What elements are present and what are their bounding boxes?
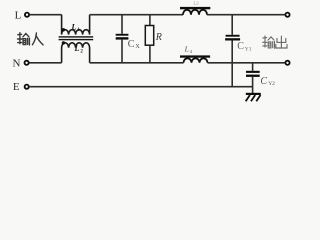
polarity dot L1	[62, 28, 65, 31]
wire N line right	[208, 62, 285, 64]
capacitor CY1	[226, 35, 240, 37]
capacitor CX	[116, 34, 129, 36]
svg-text:L3: L3	[192, 2, 199, 7]
inductor L2 (common-mode choke bottom winding)	[62, 43, 90, 63]
wire capacitor CY1 top lead	[231, 15, 233, 35]
svg-text:N: N	[13, 57, 21, 69]
terminal L	[25, 13, 29, 17]
wire capacitor CY2 top lead	[252, 63, 254, 70]
svg-text:C: C	[128, 39, 135, 50]
terminal output N	[285, 61, 289, 65]
svg-text:Y2: Y2	[268, 81, 275, 87]
choke core lines	[59, 36, 94, 37]
terminal output L	[285, 13, 289, 17]
wire L line middle	[90, 14, 183, 16]
resistor R	[145, 26, 153, 46]
wire capacitor CY2 bottom lead	[252, 77, 254, 94]
svg-text:Y1: Y1	[245, 47, 252, 53]
inductor L4 core bar	[180, 55, 210, 57]
wire N line middle	[90, 62, 184, 64]
terminal N	[25, 61, 29, 65]
inductor L3 core bar	[180, 7, 210, 9]
text 输出 (output)	[263, 36, 287, 48]
wire N input	[30, 62, 62, 64]
terminal E	[25, 85, 29, 89]
svg-text:C: C	[237, 41, 244, 52]
inductor L4	[184, 58, 208, 62]
svg-text:C: C	[260, 76, 267, 87]
polarity dot L2	[62, 41, 65, 44]
svg-text:L: L	[184, 45, 189, 54]
wire L input	[30, 14, 62, 16]
wire capacitor CX top lead	[121, 15, 123, 34]
inductor L3	[183, 10, 207, 15]
wire E line	[30, 86, 253, 88]
wire resistor R bottom lead	[149, 45, 151, 62]
svg-text:X: X	[135, 44, 140, 50]
svg-text:L: L	[70, 21, 76, 31]
wire capacitor CY1 bottom lead to E	[231, 41, 233, 87]
svg-text:R: R	[155, 32, 162, 43]
text 输入 (input)	[18, 33, 44, 45]
wire L line right	[207, 14, 285, 16]
inductor L1 (common-mode choke top winding)	[62, 15, 90, 35]
svg-text:L: L	[73, 43, 79, 53]
wire capacitor CX bottom lead	[121, 40, 123, 63]
wire resistor R top lead	[149, 15, 151, 25]
ground symbol	[246, 94, 261, 101]
capacitor CY2	[246, 71, 260, 73]
svg-text:E: E	[13, 81, 20, 93]
svg-text:L: L	[15, 9, 22, 21]
